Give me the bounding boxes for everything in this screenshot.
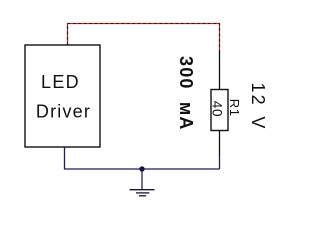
LED Driver block U1 — [25, 45, 100, 147]
wire: dark dash overlay on red net — [68, 24, 220, 51]
svg-text:Driver: Driver — [36, 102, 91, 122]
svg-text:40: 40 — [210, 101, 225, 118]
wire: ground stub — [141, 169, 143, 190]
svg-text:R1: R1 — [227, 99, 242, 117]
wire: resistor R1 bottom lead (black) — [219, 131, 221, 157]
wire: resistor R1 top lead (black) — [219, 50, 221, 90]
node: junction dot on bottom net — [139, 166, 144, 171]
svg-text:12 V: 12 V — [248, 83, 268, 131]
svg-text:300 мА: 300 мА — [176, 56, 196, 131]
wire: navy right segment to bottom net — [219, 156, 221, 169]
svg-text:LED: LED — [41, 72, 80, 92]
wire: navy bottom return net — [65, 147, 220, 169]
ground symbol (3 bars) — [130, 189, 155, 191]
resistor R1 body — [211, 90, 228, 131]
wire: red positive net from LED Driver top to resistor top — [68, 24, 220, 51]
